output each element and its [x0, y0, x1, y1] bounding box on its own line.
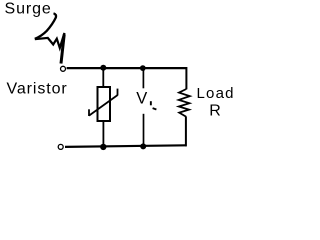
wire (top horizontal) — [67, 67, 187, 69]
svg-text:V: V — [136, 89, 147, 107]
svg-text:Surge: Surge — [5, 1, 52, 18]
svg-text:Varistor: Varistor — [7, 80, 68, 97]
label "Surge" — [5, 1, 52, 18]
wire (varistor top lead) — [102, 68, 104, 87]
terminal (bottom input, open circle) — [58, 144, 63, 149]
surge arrow (lightning bolt) — [35, 13, 65, 63]
wire (VL upper stub) — [142, 69, 144, 88]
junction dot (top, VL branch) — [140, 65, 146, 71]
wire (bottom horizontal) — [65, 145, 186, 147]
terminal (top input, open circle) — [61, 66, 66, 71]
wire (right vertical, upper) — [185, 67, 187, 89]
junction dot (bottom, varistor branch) — [100, 144, 106, 150]
label "Varistor" — [7, 80, 68, 97]
label "Load R" — [197, 85, 235, 119]
wire (varistor bottom lead) — [102, 121, 104, 147]
label "VL" (load voltage) — [136, 89, 156, 109]
junction dot (top, varistor branch) — [100, 65, 106, 71]
wire (right vertical, lower) — [185, 116, 187, 146]
wire (VL lower stub) — [143, 114, 145, 146]
varistor RV (box with diagonal) — [89, 87, 118, 121]
resistor R (load, zigzag) — [179, 89, 190, 117]
svg-text:Load: Load — [197, 85, 235, 102]
svg-text:R: R — [209, 102, 221, 119]
junction dot (bottom, VL branch) — [140, 143, 146, 149]
